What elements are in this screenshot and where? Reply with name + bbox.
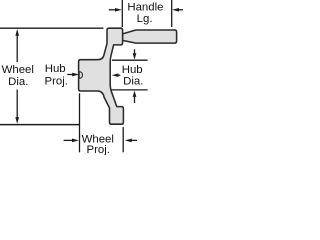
svg-text:Handle: Handle [127, 1, 163, 13]
wheel-dia bottom arrow (down) [15, 117, 19, 124]
wheel-dia top arrow (up) [15, 29, 19, 36]
svg-text:Hub: Hub [122, 64, 143, 76]
hub-dia bottom arrow (up) [133, 91, 137, 97]
hub-proj arrow shaft [67, 74, 73, 76]
wheel-proj arrow shafts [64, 139, 73, 141]
hub-proj arrow (right) [72, 73, 79, 77]
handle-lg left arrow (right) [115, 8, 122, 12]
svg-text:Hub: Hub [45, 63, 66, 75]
handle (part, drawn under wheel rim) [123, 30, 177, 43]
hub-dia leader arrow (left) [112, 73, 119, 77]
svg-text:Wheel: Wheel [2, 64, 34, 76]
handle-lg arrow shafts [109, 9, 116, 11]
svg-text:Proj.: Proj. [44, 75, 67, 87]
wheel-proj extension lines [79, 93, 81, 152]
dimension graphics [0, 0, 183, 152]
wheel-proj right arrow (left) [125, 139, 132, 143]
svg-text:Dia.: Dia. [123, 76, 143, 88]
top wheel-dia extension line [0, 27, 103, 29]
hub-dia arrow shafts [134, 49, 136, 54]
handle-lg extension lines [121, 0, 123, 27]
bottom wheel-dia extension line [0, 124, 79, 126]
left dimension line shafts [16, 33, 18, 62]
svg-text:Lg.: Lg. [137, 13, 153, 25]
hub-dia extension lines [112, 59, 148, 61]
svg-text:Dia.: Dia. [8, 76, 28, 88]
arrowheads [15, 8, 179, 142]
hub set-screw notch on hub left face [79, 72, 82, 79]
svg-text:Proj.: Proj. [86, 144, 109, 155]
hub-dia leader arrow shaft [118, 74, 121, 76]
handle-lg right arrow (left) [172, 8, 179, 12]
wheel body: rim top, web, hub, rim bottom [79, 28, 124, 124]
hub-dia top arrow (down) [133, 53, 137, 59]
wheel-proj left arrow (right) [72, 139, 79, 143]
